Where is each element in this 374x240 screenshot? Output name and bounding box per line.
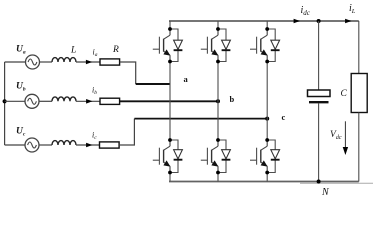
transistor: IGBT of lower phase-a switch — [153, 140, 171, 173]
wire: leg 3 top stub — [266, 21, 268, 29]
node: bottom junction of upper phase-b switch — [216, 60, 220, 64]
svg-text:L: L — [70, 46, 76, 56]
wire: top DC bus — [169, 20, 359, 22]
current arrow ib — [86, 99, 92, 104]
wire: inductor La to resistor Ra — [76, 61, 100, 63]
diode: antiparallel diode of upper phase-a switch — [174, 40, 183, 50]
node: top junction of lower phase-c switch — [265, 138, 269, 142]
svg-text:C: C — [341, 89, 348, 99]
capacitor C (dc link) — [308, 90, 331, 102]
wire: leg 2 bottom stub — [217, 173, 219, 182]
svg-text:c: c — [282, 112, 286, 122]
wire: source Ua to inductor La — [40, 61, 53, 63]
current arrow ia — [86, 60, 92, 65]
resistor: load (vertical box) — [351, 74, 367, 113]
wire: leg 3 bottom stub — [266, 173, 268, 182]
wire: leg 2 top stub — [217, 21, 219, 29]
transistor: IGBT of upper phase-b switch — [201, 29, 219, 62]
wire: rail to source Uc — [5, 144, 25, 146]
diode: antiparallel diode of lower phase-b switch — [222, 150, 231, 160]
node N: capacitor bottom junction — [317, 180, 321, 184]
node: bottom junction of lower phase-c switch — [265, 171, 269, 175]
inductor La — [52, 58, 76, 62]
svg-text:b: b — [230, 94, 235, 104]
node: bottom junction of lower phase-b switch — [216, 171, 220, 175]
node: top junction of upper phase-b switch — [216, 27, 220, 31]
node: bottom junction of lower phase-a switch — [168, 171, 172, 175]
voltage arrow Vdc — [343, 121, 348, 155]
wire: diode branch of upper phase-b switch — [218, 29, 226, 62]
wire: phase a bold segment into leg 1 — [136, 83, 170, 85]
current arrow idc on top bus — [294, 19, 300, 24]
AC source Ub — [25, 94, 39, 108]
resistor Ra — [100, 59, 120, 65]
wire: neutral node to source Ub — [5, 100, 25, 102]
node: capacitor top junction — [317, 19, 321, 23]
wire: capacitor branch lower — [318, 103, 320, 181]
diode: antiparallel diode of lower phase-c switch — [271, 150, 280, 160]
wire: source Uc to inductor Lc — [39, 144, 52, 146]
node o: neutral terminal — [3, 99, 7, 103]
wire: source Ub to inductor Lb — [39, 100, 52, 102]
wire: bottom DC bus — [169, 181, 359, 183]
wire: phase c bold segment to leg 3 — [134, 118, 267, 120]
wire: diode branch of lower phase-b switch — [218, 140, 226, 173]
wire: resistor Ra to node a (jog down) — [120, 62, 136, 84]
wire: inductor Lb to resistor Rb — [76, 100, 100, 102]
transistor: IGBT of lower phase-c switch — [250, 140, 268, 173]
wire: capacitor branch upper — [318, 21, 320, 90]
AC source Uc — [25, 138, 39, 152]
wire: leg 2 middle section — [217, 62, 219, 141]
wire: left neutral rail — [4, 62, 6, 145]
node: top junction of lower phase-a switch — [168, 138, 172, 142]
wire: leg 1 bottom stub — [169, 173, 171, 182]
AC source Ua — [26, 55, 40, 69]
transistor: IGBT of lower phase-b switch — [201, 140, 219, 173]
node b junction — [216, 99, 220, 103]
node c junction — [265, 117, 269, 121]
resistor Rb — [100, 98, 120, 104]
node: top junction of upper phase-a switch — [168, 27, 172, 31]
wire: rail to source Ua — [5, 61, 26, 63]
wire: resistor Rc to node c (jog up) — [119, 119, 134, 145]
current arrow iL on top bus — [345, 19, 351, 24]
wire: leg 1 top stub — [169, 21, 171, 29]
resistor Rc — [100, 142, 120, 148]
diode: antiparallel diode of upper phase-c switch — [271, 40, 280, 50]
wire: diode branch of upper phase-c switch — [267, 29, 275, 62]
node: top junction of upper phase-c switch — [265, 27, 269, 31]
node: top junction of lower phase-b switch — [216, 138, 220, 142]
inductor Lb — [52, 97, 76, 101]
diode: antiparallel diode of upper phase-b switch — [222, 40, 231, 50]
wire: diode branch of upper phase-a switch — [170, 29, 178, 62]
node: bottom junction of upper phase-c switch — [265, 60, 269, 64]
wire: leg 3 middle section — [266, 62, 268, 141]
transistor: IGBT of upper phase-c switch — [250, 29, 268, 62]
svg-text:N: N — [321, 187, 330, 197]
wire: leg 1 middle section — [169, 62, 171, 141]
inductor Lc — [52, 141, 76, 145]
wire: diode branch of lower phase-a switch — [170, 140, 178, 173]
node: bottom junction of upper phase-a switch — [168, 60, 172, 64]
wire: phase b bold segment to leg 2 — [120, 100, 218, 102]
wire: bottom bus faint extension — [300, 182, 373, 184]
wire: load branch upper — [358, 21, 360, 74]
diode: antiparallel diode of lower phase-a switch — [174, 150, 183, 160]
current arrow ic — [86, 143, 92, 148]
wire: inductor Lc to resistor Rc — [76, 144, 100, 146]
transistor: IGBT of upper phase-a switch — [153, 29, 171, 62]
svg-text:R: R — [112, 45, 119, 55]
wire: load branch lower — [358, 113, 360, 182]
wire: diode branch of lower phase-c switch — [267, 140, 275, 173]
